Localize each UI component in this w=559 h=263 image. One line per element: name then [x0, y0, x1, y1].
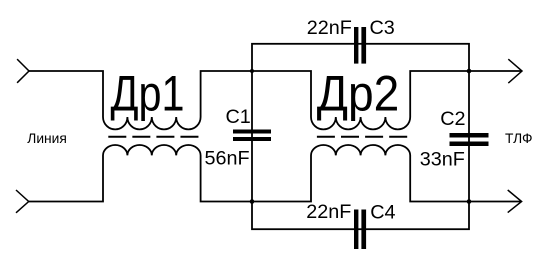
wire top line with choke Др1 and Др2 top windings	[29, 71, 522, 129]
capacitor C1 plates	[233, 130, 271, 142]
svg-text:Др1: Др1	[111, 65, 185, 122]
capacitor C4 plates	[354, 210, 366, 250]
svg-text:C3: C3	[370, 17, 395, 39]
svg-text:22nF: 22nF	[306, 201, 351, 223]
svg-text:C1: C1	[226, 106, 251, 128]
svg-text:Линия: Линия	[27, 131, 67, 146]
arrow left bottom	[16, 190, 29, 213]
svg-text:22nF: 22nF	[307, 17, 352, 39]
svg-text:33nF: 33nF	[420, 149, 465, 171]
svg-text:Др2: Др2	[317, 65, 400, 122]
capacitor C2 plates	[450, 133, 489, 146]
junction node bottom-right	[467, 199, 472, 204]
arrow right bottom	[508, 190, 522, 213]
junction node bottom-left	[250, 199, 255, 204]
arrow left top	[17, 59, 29, 83]
wire rectangle loop (top rail y=43, bottom rail y=229, verticals x=252 and x=469)	[252, 44, 469, 229]
capacitor C3 plates	[354, 27, 366, 64]
svg-text:C2: C2	[440, 108, 465, 130]
svg-text:56nF: 56nF	[205, 147, 250, 169]
wire bottom line with choke Др1 and Др2 bottom windings	[29, 145, 522, 202]
choke Др2 core (dashed)	[317, 136, 408, 138]
svg-text:ТЛФ: ТЛФ	[505, 131, 533, 146]
svg-text:C4: C4	[370, 202, 395, 224]
junction node top-left	[250, 69, 254, 73]
choke Др1 core (dashed)	[108, 136, 198, 138]
junction node top-right	[467, 69, 472, 74]
arrow right top	[508, 59, 522, 83]
